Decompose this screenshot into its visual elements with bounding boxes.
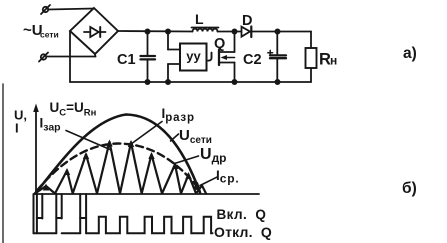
leader line for Uдр <box>175 156 199 164</box>
wire top rail: L to D <box>218 31 242 33</box>
svg-text:уу: уу <box>186 49 201 64</box>
diode symbol inside bridge <box>84 27 106 37</box>
node: sense bottom junction <box>166 80 170 84</box>
arrowhead at end of dashed curve <box>193 182 201 192</box>
arrowheads on sawtooth peaks <box>43 140 192 191</box>
inductor L (choke with core) <box>192 11 219 32</box>
node: C1 bottom junction <box>145 80 149 84</box>
svg-text:а): а) <box>403 45 417 62</box>
leader line for Uсети <box>171 134 179 141</box>
gate pulse train of Q <box>34 194 213 233</box>
wire bottom rail (common) <box>70 81 311 83</box>
pulse low segment 2 <box>62 232 80 234</box>
polarity mark + of C2 <box>268 50 273 55</box>
node: C2 bottom junction <box>275 80 279 84</box>
node: Q source junction <box>232 80 236 84</box>
pulse 1 crossbar <box>37 217 42 219</box>
node: sense top junction <box>166 29 170 33</box>
svg-text:б): б) <box>402 180 417 197</box>
capacitor C1 <box>117 32 155 83</box>
wire top input to bridge <box>48 9 94 10</box>
svg-text:I: I <box>15 121 19 136</box>
leader line for Iср <box>200 177 218 186</box>
svg-text:L: L <box>195 11 204 27</box>
scan edge artifact line <box>2 84 4 243</box>
pulse 3 left tall edge <box>79 194 81 233</box>
svg-text:C1: C1 <box>117 52 136 68</box>
value label ~Uсети <box>23 22 59 40</box>
wire bottom input to bridge <box>46 54 95 57</box>
pulse 1 left tall edge <box>36 194 38 233</box>
pulse 3 crossbar <box>80 217 86 219</box>
curve Uсети (mains half-sine) <box>35 115 200 194</box>
bridge rectifier VD1 (diamond) <box>70 8 118 54</box>
pulse edge tall at x=33.5 <box>33 194 35 233</box>
transistor Q (MOSFET switch) <box>208 32 234 83</box>
svg-text:C2: C2 <box>243 52 262 68</box>
square wave pulses 4-9 <box>86 217 212 234</box>
pulse 1 right edge <box>41 194 43 219</box>
svg-text:Откл. Q: Откл. Q <box>214 224 272 240</box>
x axis (time) <box>35 193 259 195</box>
node: C2 top junction <box>275 29 279 33</box>
svg-text:сети: сети <box>40 30 59 40</box>
svg-text:Iср.: Iср. <box>216 168 240 186</box>
dashed envelope curve Uдр/Iср <box>37 144 197 191</box>
sawtooth inductor current waveform <box>35 142 206 194</box>
capacitor C2 (polarized) <box>243 32 286 83</box>
svg-text:Вкл. Q: Вкл. Q <box>217 207 267 222</box>
wire sense line from rails to control box <box>168 32 180 83</box>
node: C1 top junction <box>145 29 149 33</box>
resistor Rн (load) <box>306 48 338 69</box>
leader line for Iзар <box>66 131 110 150</box>
wire top rail: D to output <box>253 31 312 33</box>
wire top rail: bridge to L <box>118 30 193 33</box>
pulse low segment 1 <box>34 232 57 234</box>
svg-text:н: н <box>330 54 337 68</box>
wire right vertical to load <box>310 32 312 83</box>
axis label U, I <box>14 108 27 136</box>
pulse 2 crossbar <box>56 217 61 219</box>
leader line for Iразр <box>129 122 162 146</box>
wire left vertical (minus output of bridge) <box>69 31 71 82</box>
control unit box УУ <box>180 44 207 71</box>
pulse 2 right edge <box>61 194 63 219</box>
diode D <box>242 13 253 37</box>
pulse 3 right tall edge <box>85 194 87 233</box>
pulse 2 left tall edge <box>55 194 57 233</box>
input terminal bottom (neutral) <box>39 53 48 62</box>
input terminal top (phase) <box>41 5 50 14</box>
y axis with arrow <box>33 104 39 195</box>
node: Q drain junction <box>232 29 236 33</box>
